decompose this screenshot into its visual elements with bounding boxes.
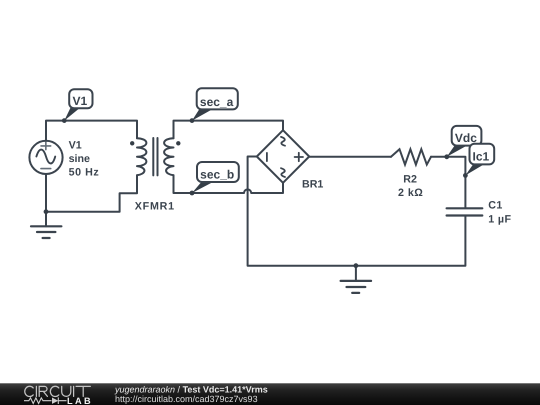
svg-text:BR1: BR1 [302, 179, 323, 191]
svg-text:2 kΩ: 2 kΩ [398, 187, 423, 199]
svg-text:Ic1: Ic1 [473, 149, 490, 163]
svg-text:Vdc: Vdc [455, 131, 477, 145]
svg-text:V1: V1 [69, 139, 82, 151]
svg-text:sec_a: sec_a [200, 95, 234, 109]
svg-text:1 µF: 1 µF [488, 214, 511, 226]
svg-text:R2: R2 [403, 173, 417, 185]
svg-text:50 Hz: 50 Hz [69, 166, 100, 178]
svg-text:XFMR1: XFMR1 [135, 201, 175, 213]
svg-text:yugendraraokn / Test Vdc=1.41*: yugendraraokn / Test Vdc=1.41*Vrms [114, 384, 268, 394]
svg-text:V1: V1 [72, 94, 87, 108]
svg-text:sine: sine [69, 153, 90, 165]
svg-text:C1: C1 [488, 200, 503, 212]
svg-text:http://circuitlab.com/cad379cz: http://circuitlab.com/cad379cz7vs93 [115, 394, 258, 404]
svg-text:sec_b: sec_b [200, 168, 234, 182]
svg-text:LAB: LAB [67, 396, 93, 405]
